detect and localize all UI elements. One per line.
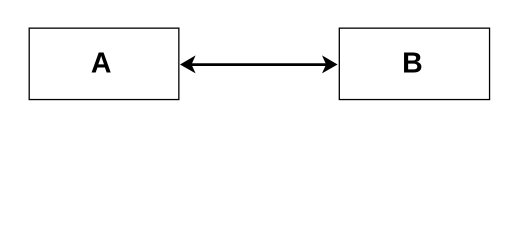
node A (box) (29, 28, 179, 99)
svg-text:B: B (402, 48, 423, 80)
arrowhead pointing at node A (180, 55, 196, 73)
wire A-B (bidirectional link shaft) (191, 63, 327, 66)
node B (box) (339, 28, 489, 99)
svg-text:A: A (91, 48, 112, 80)
arrowhead pointing at node B (322, 55, 338, 73)
